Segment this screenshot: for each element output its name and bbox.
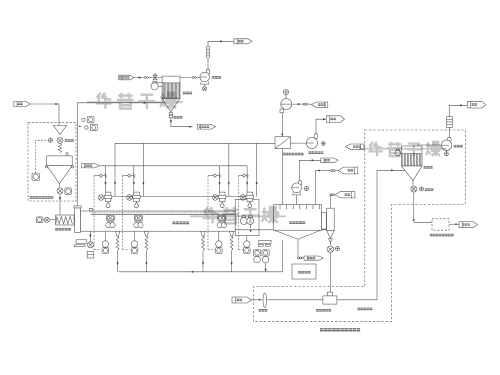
rotary valve RV3 under buffer (327, 242, 334, 252)
vibrating feeder table (258, 240, 271, 246)
burner group B3 instrument dashed drop (208, 176, 215, 250)
burner group B2 header drop (142, 143, 144, 196)
wire feed line (30, 103, 59, 126)
wire fan F1 outlet riser (207, 58, 209, 69)
bag dust collector C1 (162, 76, 180, 112)
label ash valve (173, 116, 182, 119)
flag feed inlet (14, 102, 30, 107)
wire housing exhaust riser (76, 103, 78, 206)
wire RV3 to venturi (329, 253, 331, 296)
drain squiggle D1 (115, 231, 119, 271)
silencer S2 (447, 117, 453, 128)
silencer S1 (206, 46, 209, 58)
watermark 1 (96, 93, 112, 109)
wire collector C2 to fan F5 (418, 145, 442, 146)
label rotary valve RV4 (425, 188, 434, 191)
flag exhaust to atmosphere 1 (234, 39, 252, 44)
burner group B1 pilot valve (94, 174, 107, 178)
gauge G1 (48, 138, 52, 142)
flue gas fan F3 (306, 134, 325, 149)
wire filter to venturi (267, 299, 323, 301)
burner group B3 header drop (228, 143, 230, 196)
burner group B4 pilot valve (239, 174, 249, 178)
drain squiggle D4 (229, 231, 233, 271)
burner group B2 instrument dashed drop (122, 176, 129, 250)
burner group B3 pilot valve (208, 174, 221, 178)
arrow into screw feeder (59, 194, 61, 200)
label weigh bin optional (30, 196, 54, 199)
gauge next to RV3 (335, 247, 339, 251)
wire cooling air to cooler (315, 170, 338, 205)
burner group B2 gas drop (133, 166, 135, 192)
burner group B2 pilot valve (122, 174, 135, 178)
weighing instrument box (32, 173, 39, 180)
wire blower to connector flag (292, 103, 312, 105)
label fan F1 (212, 76, 222, 79)
rotary calcining furnace body (81, 211, 236, 231)
roller station 1 (106, 215, 115, 227)
buffer bin (327, 208, 335, 242)
wire packing box to flag (449, 223, 459, 225)
rotary valve RV4 under collector C2 (411, 181, 417, 193)
discharge hood (235, 199, 259, 235)
counterflow heat exchanger HX1 (275, 137, 290, 149)
bag dust collector C2 (402, 146, 423, 181)
flag to packing (459, 222, 478, 228)
flag hot flue gas inlet (119, 75, 134, 80)
watermark 3 (203, 207, 219, 223)
motor under fan F5 (444, 150, 448, 155)
wire silencer S2 to exhaust flag (449, 104, 467, 117)
drain squiggle D3 (201, 231, 205, 271)
fresh air blower F2 (280, 89, 292, 112)
wire furnace housing exhaust duct to collector cone (77, 102, 165, 104)
label venturi feeder (316, 309, 331, 312)
flag air inlet to buffer (335, 192, 355, 198)
dashed enclosure weighing feed system (28, 122, 76, 201)
roller station 3 (217, 215, 226, 227)
wire conveying riser to collector C2 (337, 169, 405, 300)
double flap valve grid (253, 250, 269, 263)
burner B4 assembly (240, 192, 254, 208)
induced draft fan F1 (200, 69, 210, 84)
wire air to filter (252, 299, 263, 301)
screw feeder SC1 (56, 215, 75, 225)
watermark 2 (368, 142, 382, 156)
bottom drain manifold (119, 271, 283, 273)
under-furnace flap valve U4 (244, 236, 251, 254)
dashed enclosure pneumatic conveying system (254, 130, 466, 322)
wire exchanger to fan F3 (290, 142, 306, 144)
inlet seal box (89, 208, 92, 211)
under-furnace flap valve U1 (102, 231, 109, 253)
wire manifold end drop (282, 240, 284, 271)
furnace drive guard bars (74, 239, 87, 246)
circulating water tank (292, 264, 316, 279)
flag conveying air inlet (232, 297, 252, 303)
screw drive instruments (36, 217, 55, 223)
wire natural gas main (99, 166, 247, 192)
valve V1 butterfly on collector inlet (153, 74, 157, 80)
flag waste water out (304, 256, 323, 260)
flag cooling air inlet (338, 167, 358, 174)
gauge next to RV4 (420, 187, 424, 191)
flag exhaust 2 (326, 116, 344, 123)
burner B3 assembly (212, 192, 226, 208)
wire exchanger bottom to cooler (282, 149, 284, 205)
burner group B4 header drop (256, 143, 258, 196)
label rotary cooler (289, 221, 305, 224)
label screw feeder (55, 228, 71, 231)
burner B1 assembly (98, 192, 112, 208)
label pneumatic cooling device optional (320, 328, 361, 331)
label dust collector C1 (183, 92, 193, 95)
burner group B1 header drop (114, 143, 116, 196)
burner group B1 instrument dashed drop (94, 176, 101, 250)
flag to dust removal (311, 102, 328, 107)
flap valve discharge (264, 263, 266, 272)
rotary valve RV1 (57, 137, 63, 143)
feed end housing (74, 206, 81, 233)
wire blower F4 to exhaust flag (299, 159, 321, 180)
label packing system optional (430, 234, 454, 237)
flex connection squiggle (58, 143, 61, 152)
rotary cooler (235, 205, 326, 240)
flag natural gas inlet (82, 164, 100, 168)
burner group B1 gas drop (104, 166, 106, 192)
label water tank (298, 271, 311, 274)
wire silencer to exhaust flag (208, 40, 234, 46)
label rotary valve (65, 139, 74, 142)
flag recycled material (345, 144, 364, 149)
rotary valve RV2 under hopper (57, 184, 63, 194)
conveying fan F5 (441, 137, 451, 150)
label flue gas fan (309, 151, 324, 154)
dash-dot instrument line (36, 140, 49, 173)
feed funnel (53, 126, 66, 135)
air filter (263, 293, 267, 307)
wire blower to exchanger (281, 113, 283, 137)
flag exhaust 4 (467, 101, 486, 108)
left under-furnace rotary valve (87, 231, 94, 258)
motor box RV2 (65, 188, 71, 194)
burner group B4 instrument dashed drop (239, 176, 246, 250)
burner group B4 gas drop (246, 182, 248, 185)
cooler discharge chute (322, 213, 327, 229)
wire collector outlet to fan F1 (180, 77, 200, 79)
wire hot gas header (115, 142, 275, 144)
under-furnace flap valve U3 (216, 231, 223, 253)
venturi feeder (323, 292, 337, 304)
drain squiggle D2 (144, 231, 148, 271)
label heat exchanger (283, 153, 304, 156)
under-furnace flap valve U2 (131, 231, 138, 253)
wire into screw feeder (59, 200, 61, 215)
wire RV4 to packing (413, 192, 432, 222)
label conveying pipe (358, 308, 373, 311)
rotary discharge valve under collector C1 (169, 113, 172, 121)
wire flue gas to collector (134, 76, 162, 78)
dashed packing system box (432, 219, 449, 230)
pulse blower P1 on collector side (151, 81, 162, 90)
roller station 2 (134, 215, 143, 227)
wire fan F5 riser (448, 127, 450, 137)
wire air to buffer bin (330, 194, 335, 208)
flag exhaust 3 (321, 158, 338, 163)
flag collected dust out (197, 125, 215, 130)
weigh hopper H1 (45, 153, 74, 184)
label filter (259, 309, 268, 312)
instrument cluster on exhaust duct (79, 116, 97, 130)
label rotary furnace (172, 221, 189, 224)
burner B2 assembly (127, 192, 141, 208)
burner group B3 gas drop (218, 166, 220, 192)
hood discharge arrow (249, 224, 251, 232)
motor M1 under fan F1 (202, 84, 206, 91)
label fan F5 (454, 145, 463, 148)
wire burner manifold (111, 195, 253, 197)
wire ash line to flag (170, 120, 193, 127)
pulse blower P2 (395, 149, 402, 156)
label dust collector C2 (424, 166, 433, 169)
wire fan F3 to exhaust flag (316, 118, 326, 134)
cooler water drain to flag (297, 239, 304, 259)
cooling air blower F4 (292, 181, 309, 205)
